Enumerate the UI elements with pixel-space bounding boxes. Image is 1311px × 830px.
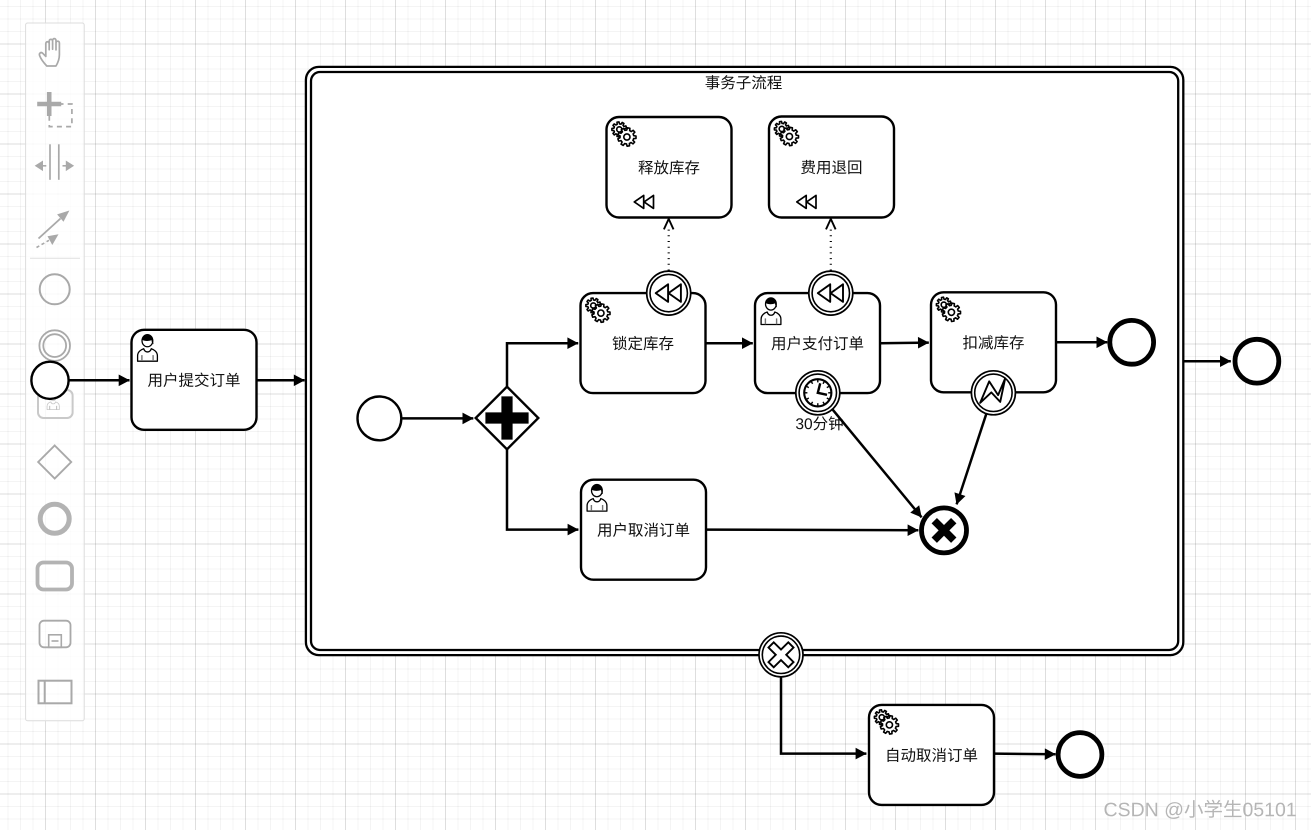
sequence flow cancel-boundary to auto-cancel bbox=[781, 677, 866, 754]
sequence flow inner start to gateway bbox=[402, 417, 474, 420]
compensation boundary event on 用户支付订单 bbox=[809, 271, 853, 315]
palette intermediate event bbox=[39, 330, 70, 361]
palette separator bbox=[30, 257, 80, 259]
palette gateway bbox=[38, 446, 71, 479]
sequence flow start to submit-order bbox=[69, 379, 130, 382]
task 费用退回 refund fee (compensation) bbox=[769, 117, 894, 218]
sequence flow deduct-stock to inner end bbox=[1056, 341, 1107, 344]
palette participant pool bbox=[39, 681, 72, 704]
sequence flow lock-stock to pay-order bbox=[706, 342, 753, 345]
subprocess label 事务子流程 bbox=[706, 75, 782, 89]
task 锁定库存 lock stock bbox=[581, 293, 706, 393]
task 扣减库存 deduct stock bbox=[931, 292, 1056, 392]
palette user task entry bbox=[38, 390, 73, 418]
palette lasso tool bbox=[37, 92, 72, 127]
palette task bbox=[38, 563, 73, 590]
transaction subprocess 事务子流程 (double border) bbox=[306, 67, 1183, 655]
start event main bbox=[31, 362, 68, 399]
task 用户取消订单 user cancel order bbox=[581, 480, 706, 580]
cancel end event bbox=[922, 508, 967, 553]
cancel boundary event on subprocess bbox=[759, 633, 803, 677]
end event inner bbox=[1110, 320, 1154, 364]
final end event bbox=[1235, 339, 1279, 383]
label 30分钟 bbox=[796, 416, 843, 430]
watermark bbox=[1104, 800, 1295, 819]
task 用户提交订单 user submit order bbox=[132, 330, 257, 430]
palette end event bbox=[40, 504, 69, 533]
sequence flow cancel-order to cancel-end bbox=[706, 528, 918, 531]
sequence flow auto-cancel to end bbox=[994, 752, 1056, 755]
compensation boundary event on 锁定库存 bbox=[647, 271, 691, 315]
sequence flow pay-order to deduct-stock bbox=[880, 341, 929, 344]
palette container bbox=[26, 23, 85, 721]
sequence flow error to cancel-end bbox=[957, 414, 987, 504]
palette global connect tool bbox=[37, 211, 70, 248]
palette hand tool bbox=[39, 39, 59, 66]
end event after auto-cancel bbox=[1058, 733, 1102, 777]
sequence flow gateway to lock-stock bbox=[507, 343, 578, 387]
compensation association to 释放库存 bbox=[664, 219, 674, 271]
palette subprocess bbox=[40, 621, 71, 648]
sequence flow timer to cancel-end bbox=[832, 409, 921, 517]
task 释放库存 release stock (compensation) bbox=[607, 117, 732, 218]
sequence flow submit-order to subprocess bbox=[257, 379, 305, 382]
palette start event bbox=[40, 274, 70, 304]
error boundary event on 扣减库存 bbox=[971, 371, 1015, 415]
parallel gateway bbox=[476, 387, 539, 450]
timer boundary event on 用户支付订单 bbox=[796, 371, 840, 415]
sequence flow subprocess to final end bbox=[1183, 360, 1231, 363]
compensation association to 费用退回 bbox=[826, 219, 836, 271]
start event inner bbox=[358, 397, 402, 441]
sequence flow gateway to cancel-order bbox=[507, 449, 578, 529]
palette space tool bbox=[36, 144, 74, 180]
task 用户支付订单 user pay order bbox=[755, 293, 880, 393]
task 自动取消订单 auto cancel order bbox=[869, 705, 994, 805]
